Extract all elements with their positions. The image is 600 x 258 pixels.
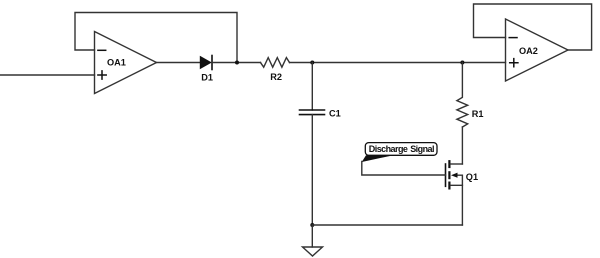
svg-text:OA1: OA1 [107, 58, 126, 68]
diode D1 [200, 56, 213, 83]
wire input to OA1 + [0, 74, 95, 76]
svg-text:Discharge Signal: Discharge Signal [369, 144, 434, 154]
flag Discharge Signal [362, 143, 437, 162]
svg-text:C1: C1 [329, 108, 341, 118]
svg-text:D1: D1 [201, 72, 213, 82]
wire OA1 feedback [75, 13, 237, 63]
svg-text:R1: R1 [472, 109, 484, 119]
node at ground junction [310, 223, 314, 227]
wire C1 to bottom node [311, 115, 313, 225]
wire R1 to Q1 drain [461, 127, 463, 164]
svg-text:Q1: Q1 [466, 172, 478, 182]
transistor Q1 [446, 161, 479, 188]
resistor R2 [261, 58, 290, 82]
svg-text:OA2: OA2 [519, 46, 538, 56]
node at D1/feedback junction [235, 61, 239, 65]
node at C1 top [310, 61, 314, 65]
node at R1 top [460, 61, 464, 65]
capacitor C1 [300, 108, 341, 118]
op-amp OA2 [506, 19, 569, 81]
wire node to C1 [311, 63, 313, 111]
wire OA2 feedback [474, 4, 592, 50]
wire Q1 gate [362, 162, 446, 176]
wire R2 to OA2 + input [290, 62, 506, 64]
resistor R1 [457, 63, 484, 128]
op-amp OA1 [95, 32, 157, 94]
wire D1 to R2 [212, 62, 261, 64]
svg-text:R2: R2 [270, 72, 282, 82]
ground [303, 225, 323, 256]
wire bottom rail [312, 224, 462, 226]
wire Q1 source to bottom rail [461, 185, 463, 225]
wire OA1 output to D1 [157, 62, 201, 64]
